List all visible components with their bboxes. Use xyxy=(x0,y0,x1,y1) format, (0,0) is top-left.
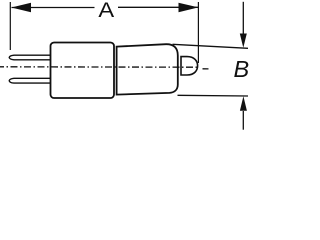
svg-text:B: B xyxy=(234,56,250,82)
svg-text:A: A xyxy=(98,0,115,22)
